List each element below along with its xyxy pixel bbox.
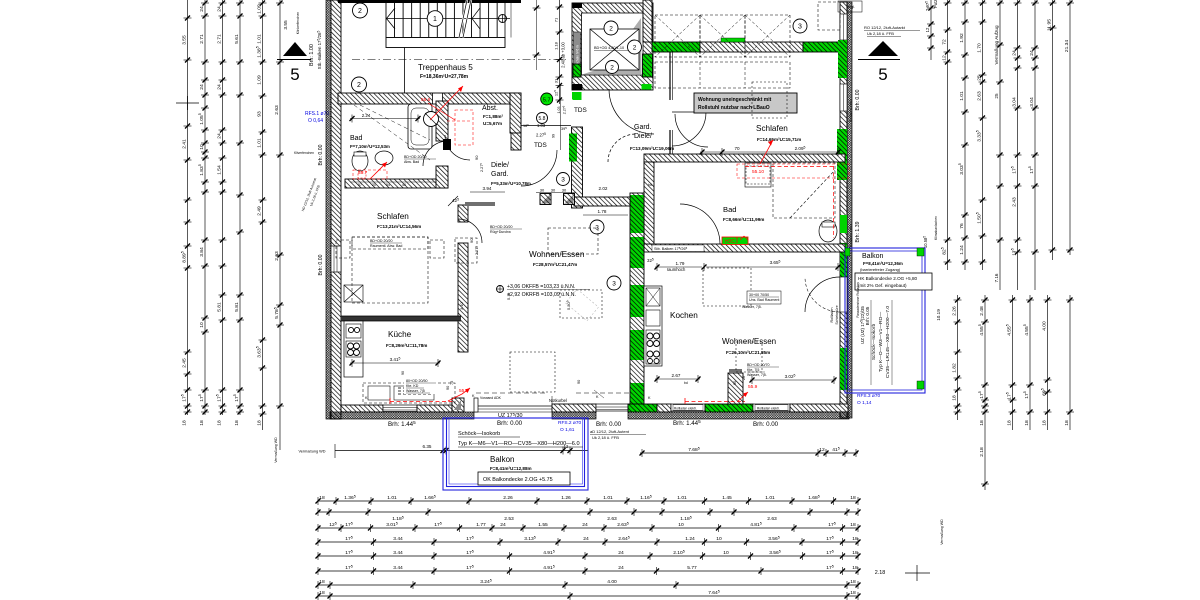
svg-text:Brh: 1.445: Brh: 1.445	[388, 420, 416, 428]
svg-text:Rollladen elektr.: Rollladen elektr.	[674, 406, 697, 410]
label schlafen right	[756, 124, 801, 142]
divider wall green 285	[631, 285, 644, 317]
svg-text:5.81: 5.81	[234, 302, 240, 312]
label schlafen left	[377, 212, 421, 229]
svg-text:4.00: 4.00	[1041, 321, 1047, 331]
label brh 1.00 rotated	[309, 44, 315, 66]
bottom wall right crosshatch	[628, 412, 849, 419]
svg-text:Uk 2,18 ü. FFB: Uk 2,18 ü. FFB	[592, 435, 619, 440]
svg-text:2.63: 2.63	[607, 516, 617, 522]
bad left bottom wall	[345, 179, 448, 188]
svg-text:2.67: 2.67	[672, 373, 681, 378]
door arc gard-schlafen	[672, 112, 706, 146]
abst right wall	[510, 93, 521, 133]
tds right wall upper black cap	[572, 85, 583, 90]
svg-text:1.03: 1.03	[537, 123, 546, 128]
divider wall hatch base	[630, 193, 644, 405]
svg-text:24: 24	[199, 6, 205, 12]
svg-text:54: 54	[386, 183, 390, 187]
svg-text:UZ 175/30: UZ 175/30	[498, 411, 522, 419]
svg-text:24: 24	[500, 522, 506, 528]
right wall green b	[837, 129, 847, 180]
label schiebe rot	[830, 305, 839, 324]
svg-text:Kte. KD: Kte. KD	[406, 384, 419, 388]
svg-text:Vermaßung WD: Vermaßung WD	[940, 519, 944, 545]
circle green 5.7	[541, 93, 553, 105]
top wall right apt green b	[803, 42, 840, 52]
balcony mid schoeck text	[458, 431, 583, 447]
label putzabgleich box	[838, 1, 862, 12]
elevator shaft outer	[572, 3, 653, 90]
kueche crosses	[344, 285, 363, 302]
svg-text:18: 18	[319, 590, 325, 596]
svg-text:2,40 ab +3,00: 2,40 ab +3,00	[561, 41, 566, 67]
bottom right cross mark	[905, 565, 930, 581]
svg-text:Schiebetüre: Schiebetüre	[835, 305, 839, 324]
svg-text:3.44: 3.44	[393, 565, 403, 571]
svg-text:1.45: 1.45	[722, 495, 732, 501]
stair right edge lines	[505, 0, 511, 38]
top wall green tab	[721, 38, 745, 42]
svg-text:10: 10	[716, 536, 722, 542]
bottom window right b	[753, 404, 790, 411]
svg-text:18: 18	[852, 536, 858, 542]
svg-text:90: 90	[469, 238, 474, 243]
svg-text:F=8,66m²U=11,99m: F=8,66m²U=11,99m	[723, 217, 764, 222]
circle 3 c	[590, 220, 604, 234]
tds mini dims	[520, 85, 570, 150]
svg-text:18: 18	[951, 395, 957, 401]
dim uz mid label	[577, 376, 746, 385]
wc bad right	[819, 220, 837, 242]
uz pier right apt	[728, 369, 743, 404]
svg-text:18: 18	[256, 420, 262, 426]
svg-text:BD+OD 20/20: BD+OD 20/20	[404, 155, 426, 159]
svg-text:Rollladen elektr.: Rollladen elektr.	[849, 223, 853, 247]
svg-text:20: 20	[372, 183, 376, 187]
balcony mid label	[490, 455, 532, 471]
dimension chain bottom row3	[316, 522, 861, 532]
elevator inner square	[590, 29, 639, 70]
svg-text:2.63: 2.63	[274, 251, 280, 261]
svg-text:30: 30	[540, 188, 545, 193]
svg-text:24: 24	[199, 84, 205, 90]
svg-text:Rollladen elektr.: Rollladen elektr.	[757, 406, 780, 410]
bottom window left	[383, 405, 417, 412]
circle 3 a	[793, 19, 807, 33]
svg-text:HK Balkondecke 2.OG +5,80: HK Balkondecke 2.OG +5,80	[858, 276, 918, 281]
svg-text:10: 10	[723, 550, 729, 556]
svg-text:5.8: 5.8	[539, 116, 546, 122]
svg-text:2: 2	[357, 82, 361, 89]
dimension chain left 4	[233, 0, 244, 426]
tds right wall	[572, 127, 583, 208]
svg-text:Typ K—O—W3—V1—RO—: Typ K—O—W3—V1—RO—	[878, 312, 884, 372]
dimension chain right 1	[941, 0, 952, 270]
wall tds-divider	[574, 197, 630, 206]
svg-text:3.44: 3.44	[393, 536, 403, 542]
svg-text:Schlafen: Schlafen	[377, 212, 409, 221]
bottom window mid	[596, 404, 628, 411]
svg-text:Abst.: Abst.	[482, 105, 498, 112]
svg-text:1.82: 1.82	[951, 363, 957, 373]
dimension chain bottom row4	[316, 536, 861, 546]
svg-text:+3,06 OKFFB =103,23 ü.N.N.: +3,06 OKFFB =103,23 ü.N.N.	[507, 284, 575, 290]
tiny stack bad left	[350, 155, 436, 187]
divider wall green 195	[631, 195, 644, 233]
svg-text:5.61: 5.61	[234, 34, 240, 44]
bad left mini dim	[350, 113, 421, 123]
label rollladen rot a	[849, 98, 853, 122]
dim 2.24 bad	[0, 0, 1, 1]
svg-text:3.94: 3.94	[483, 186, 492, 191]
svg-text:Brh: 0.00: Brh: 0.00	[855, 89, 861, 110]
level marks	[497, 284, 591, 298]
svg-text:Rollladen elektr.: Rollladen elektr.	[849, 98, 853, 122]
elevator left wall gray strip	[574, 32, 581, 77]
dimension chain left 3	[216, 0, 227, 426]
svg-text:18: 18	[850, 495, 856, 501]
dimension chain bottom row6	[316, 565, 861, 575]
bad left right wall	[436, 101, 448, 141]
door gap stair to flat	[433, 93, 443, 104]
balcony door sill	[474, 398, 552, 412]
table dashed wohnen left	[548, 228, 602, 321]
elevator green below left	[573, 92, 582, 100]
top wall right apt green a	[652, 42, 700, 52]
svg-text:5: 5	[878, 65, 887, 84]
svg-text:30+00 70/50: 30+00 70/50	[749, 293, 769, 297]
svg-text:Schlafen: Schlafen	[756, 124, 788, 133]
label brh right rotated top	[854, 4, 859, 12]
elevator mini chain	[553, 0, 565, 104]
left outer wall insulation strip	[326, 0, 331, 419]
svg-text:24: 24	[583, 536, 589, 542]
svg-text:bd: bd	[648, 183, 652, 187]
svg-text:3: 3	[798, 24, 802, 31]
svg-text:90: 90	[577, 380, 581, 384]
door arc schlafen left	[458, 219, 482, 243]
dimension chain bottom row8	[316, 590, 861, 600]
svg-text:Schöck—Isokorb: Schöck—Isokorb	[871, 324, 877, 361]
red mark 55.8	[390, 388, 470, 404]
svg-text:18: 18	[319, 495, 325, 501]
svg-text:BD+OD 20/20: BD+OD 20/20	[490, 225, 512, 229]
svg-text:3.04: 3.04	[1011, 97, 1017, 107]
svg-text:18: 18	[199, 420, 205, 426]
kochen counter	[644, 286, 662, 366]
label vermassung wd left rotated	[274, 437, 278, 463]
bad left door arc	[423, 141, 448, 166]
svg-text:bd: bd	[684, 381, 688, 385]
svg-text:F=26,10m²U=21,85m: F=26,10m²U=21,85m	[726, 350, 770, 355]
label treppenhaus	[418, 63, 473, 72]
circle 2 elevator a	[604, 21, 618, 35]
stair width dim line	[533, 0, 541, 70]
balcony right green corners	[845, 248, 924, 389]
door arc bad right	[680, 204, 720, 244]
kueche counter left	[344, 321, 363, 377]
stairwell bottom wall	[338, 93, 521, 104]
svg-text:O 1,14: O 1,14	[857, 400, 872, 406]
chain 7.68 bottom right	[640, 447, 859, 457]
svg-text:40: 40	[402, 183, 406, 187]
label diele gard left	[491, 162, 531, 186]
label 2.18 right of row6	[875, 570, 886, 576]
label rollladen rot b	[849, 223, 853, 247]
label brh000 right2	[753, 421, 779, 428]
svg-text:Notkurbel: Notkurbel	[549, 398, 567, 403]
label brh139 rot right wall	[855, 221, 861, 242]
svg-text:F=8,41m²U=12,36m: F=8,41m²U=12,36m	[863, 261, 903, 266]
label brh144 right	[673, 419, 701, 427]
elevator cabin gray shade	[582, 18, 642, 75]
svg-text:Schale h=6 m: Schale h=6 m	[576, 45, 580, 65]
svg-text:F=5,33m²U=10,78m: F=5,33m²U=10,78m	[491, 181, 531, 186]
section marker 5 left	[277, 42, 311, 84]
svg-text:2: 2	[609, 25, 613, 32]
dimension chain right 2	[958, 0, 969, 270]
balcony middle blue	[443, 418, 588, 490]
svg-text:raumhoch: raumhoch	[667, 267, 686, 272]
dim 5.90 schlafen right	[628, 261, 641, 310]
elevator label	[594, 46, 635, 51]
pilaster a	[540, 194, 551, 205]
k marks	[365, 394, 651, 400]
svg-text:5: 5	[290, 65, 299, 84]
svg-text:10: 10	[678, 522, 684, 528]
label bad right	[723, 205, 764, 222]
svg-text:OK Balkondecke 2.OG +5.75: OK Balkondecke 2.OG +5.75	[483, 477, 553, 483]
label 10.58 rotated	[923, 236, 928, 248]
label wohnen essen right	[722, 337, 776, 355]
svg-text:2.18: 2.18	[875, 570, 886, 576]
tiny stack bad right	[700, 291, 781, 309]
svg-text:5.81: 5.81	[216, 302, 222, 312]
svg-text:CV35—LR145—X80—H200—7.0: CV35—LR145—X80—H200—7.0	[885, 306, 891, 378]
svg-text:71: 71	[553, 17, 558, 22]
svg-text:55.10: 55.10	[752, 169, 764, 175]
label brh000 mid2	[596, 421, 622, 428]
svg-text:10: 10	[199, 144, 205, 150]
svg-text:12: 12	[819, 447, 825, 453]
svg-text:TDS: TDS	[574, 107, 587, 114]
tds green strip	[569, 134, 577, 162]
svg-text:2: 2	[633, 44, 637, 51]
svg-text:Abw. Bad: Abw. Bad	[404, 160, 419, 164]
label treppenhaus area	[420, 74, 469, 80]
svg-text:Uk 2,18 ü. FFB: Uk 2,18 ü. FFB	[867, 31, 894, 36]
svg-text:18: 18	[319, 579, 325, 585]
svg-text:2.53: 2.53	[504, 516, 514, 522]
svg-text:Treppenhaus 5: Treppenhaus 5	[418, 63, 473, 72]
chain vermassung wd horizontal	[298, 444, 588, 458]
balcony right box	[855, 273, 932, 290]
dimension chain bottom row1	[316, 495, 861, 505]
dimension chain right 5	[1011, 0, 1022, 290]
svg-text:+2,92 OKRFB =103,09 ü.N.N.: +2,92 OKRFB =103,09 ü.N.N.	[507, 292, 576, 298]
svg-text:BD+OD 20/70: BD+OD 20/70	[747, 363, 769, 367]
circle 2 elevator c	[606, 61, 619, 74]
door arc abst	[445, 135, 470, 160]
tiny stack bad left b	[370, 239, 422, 328]
top wall right apt	[700, 42, 803, 52]
svg-text:30: 30	[551, 188, 556, 193]
right wall window top	[840, 14, 847, 40]
svg-text:1.01: 1.01	[959, 91, 965, 101]
svg-text:Wohnung uneingeschränkt mit: Wohnung uneingeschränkt mit	[698, 97, 772, 103]
svg-text:2.63: 2.63	[976, 91, 982, 101]
svg-text:2.63: 2.63	[274, 105, 280, 115]
bottom wall right apt green a	[628, 404, 657, 412]
dimension chain right 3	[976, 0, 987, 270]
svg-text:Küche: Küche	[388, 330, 412, 339]
balcony right schoeck rotated	[871, 300, 892, 385]
svg-text:1: 1	[433, 16, 437, 23]
svg-text:3.55: 3.55	[283, 20, 289, 30]
bad left right wall lower	[436, 166, 448, 188]
svg-text:Fassadenrinne Rollladen: Fassadenrinne Rollladen	[856, 282, 860, 317]
circle mark 2 a	[353, 3, 368, 18]
svg-text:2.24: 2.24	[362, 113, 371, 118]
right wall door gap	[840, 277, 847, 312]
dims wohnen right mid	[583, 183, 652, 232]
label klinkerfenchen rotated	[296, 12, 300, 35]
circle 3 b	[557, 173, 570, 186]
label kliverfenchen tiny	[294, 151, 314, 155]
svg-text:1.92: 1.92	[959, 33, 965, 43]
svg-text:20: 20	[742, 376, 746, 380]
svg-text:Kte. 7|5: Kte. 7|5	[747, 368, 759, 372]
svg-text:30: 30	[562, 188, 567, 193]
label brh144 left	[388, 420, 416, 428]
svg-text:2.45: 2.45	[181, 358, 187, 368]
svg-text:BD+OD 4,80/1,10: BD+OD 4,80/1,10	[594, 46, 624, 50]
lintel bar gray	[465, 202, 495, 206]
sink bad left	[375, 151, 393, 165]
svg-text:24: 24	[1011, 50, 1017, 56]
bottom window right a	[671, 404, 705, 411]
svg-text:Brh: 0.00: Brh: 0.00	[497, 420, 523, 427]
svg-text:BD+OD 20/20: BD+OD 20/20	[370, 239, 392, 243]
svg-text:O 1,61: O 1,61	[560, 427, 575, 433]
wardrobe dashed right apt b	[655, 62, 790, 88]
svg-text:99: 99	[552, 134, 556, 138]
circle 2 elevator b	[628, 40, 642, 54]
svg-text:24: 24	[216, 133, 222, 139]
circle 5.8	[537, 113, 548, 124]
circle mark 2 b	[352, 77, 367, 92]
svg-text:Brh: 0.00: Brh: 0.00	[596, 421, 622, 428]
svg-text:18: 18	[1041, 420, 1047, 426]
svg-text:18: 18	[852, 550, 858, 556]
tds partition line	[521, 104, 571, 150]
dimension chain right b5	[1041, 295, 1052, 430]
window left wall	[331, 246, 341, 272]
dimension chain bottom row2	[316, 508, 861, 522]
svg-text:O 0,64: O 0,64	[308, 118, 323, 124]
red h2c box	[722, 236, 748, 245]
right wall window b	[840, 84, 847, 111]
svg-text:3.55: 3.55	[181, 35, 187, 45]
dimension chain bottom row7	[316, 579, 861, 589]
balcony right blue	[845, 248, 925, 393]
svg-text:U=5,67m: U=5,67m	[483, 121, 502, 126]
wc bad left	[352, 151, 368, 171]
divider wall green 237	[631, 237, 644, 268]
svg-text:Vorwand ADK: Vorwand ADK	[480, 396, 502, 400]
svg-text:25: 25	[994, 93, 999, 99]
divider wall green 330	[631, 330, 644, 360]
right wall green c	[840, 215, 847, 233]
door arc entry right apt	[675, 114, 708, 147]
svg-text:90: 90	[733, 381, 737, 385]
elevator green left low	[573, 64, 581, 77]
bottom wall left a	[341, 405, 383, 412]
svg-text:RFS.3 ø70: RFS.3 ø70	[857, 393, 881, 399]
label ad1212 mid	[590, 429, 646, 440]
bad door pier black	[443, 139, 451, 150]
stair walkline dashdot	[352, 59, 568, 61]
svg-text:2.02: 2.02	[599, 186, 608, 191]
svg-text:F=7,10m²U=12,53m: F=7,10m²U=12,53m	[350, 144, 390, 149]
svg-text:2: 2	[358, 8, 362, 15]
svg-text:1.01: 1.01	[256, 34, 262, 44]
tiny stack gard right	[722, 127, 724, 128]
svg-text:3.10: 3.10	[459, 301, 464, 310]
svg-text:18: 18	[1024, 420, 1030, 426]
dimension chain right 6	[1028, 0, 1039, 290]
svg-text:10: 10	[199, 322, 205, 328]
bottom wall right apt b	[657, 404, 671, 412]
bottom wall right apt green b	[705, 404, 753, 412]
right wall green e	[840, 348, 847, 390]
svg-text:18: 18	[181, 420, 187, 426]
left wall mini ticks	[176, 96, 199, 110]
svg-text:Brh: 1.445: Brh: 1.445	[673, 419, 701, 427]
svg-text:2.48: 2.48	[979, 306, 985, 316]
label tds lower	[534, 142, 547, 149]
svg-text:Wasser, 7|5.: Wasser, 7|5.	[747, 373, 767, 377]
svg-text:1.01: 1.01	[677, 495, 687, 501]
label brh000 left rotated a	[318, 144, 324, 165]
svg-text:Vermaßung Aufzug: Vermaßung Aufzug	[994, 25, 999, 65]
svg-text:RO 12/12, 2luft-Autarkt: RO 12/12, 2luft-Autarkt	[864, 25, 906, 30]
svg-text:F=1,88m²: F=1,88m²	[483, 114, 504, 119]
elevator cabin opening	[582, 13, 644, 75]
svg-text:1.77: 1.77	[476, 522, 486, 528]
svg-text:24: 24	[618, 565, 624, 571]
shower circle bad left	[424, 112, 439, 127]
right wall green d	[840, 243, 847, 277]
door arc entry left apt	[609, 89, 654, 134]
bad right bottom wall	[644, 244, 845, 252]
label brh000 rot right wall	[855, 89, 861, 110]
bottom wall left b	[417, 405, 452, 412]
svg-text:F=8,29m²U=11,78m: F=8,29m²U=11,78m	[386, 343, 427, 348]
kueche dim 341	[350, 357, 441, 367]
svg-text:18: 18	[850, 579, 856, 585]
stb balken label right bad	[652, 245, 704, 252]
raumhoch dims	[647, 258, 841, 272]
pilaster dims	[536, 188, 576, 193]
tiny stack kochen	[684, 363, 779, 385]
label rfs1 blue	[305, 111, 337, 124]
svg-text:Typ K—M6—V1—RO—CV35—X80—H200—6: Typ K—M6—V1—RO—CV35—X80—H200—6.0	[458, 441, 580, 447]
dimension chain left 5	[256, 0, 267, 430]
vanity bad right	[745, 163, 771, 187]
label rfs3 blue	[857, 393, 881, 406]
